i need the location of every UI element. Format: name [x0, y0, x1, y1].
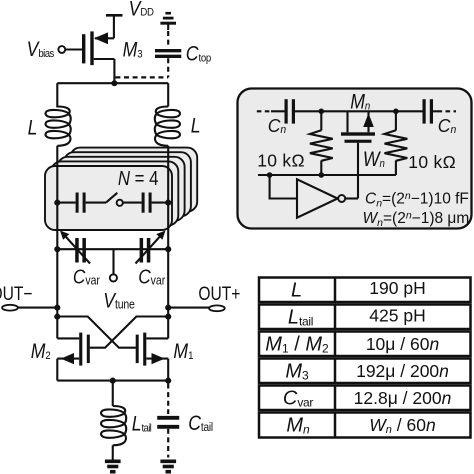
- svg-text:L: L: [191, 114, 201, 138]
- inductor L (left): [46, 107, 71, 146]
- table row 6: Mn = Wn/60n: [286, 415, 435, 437]
- OUT- terminal: [2, 305, 57, 311]
- svg-text:Ltail: Ltail: [132, 412, 152, 436]
- wire left rail to inductor: [56, 83, 58, 107]
- VDD supply rail bar: [106, 15, 123, 38]
- wire top center: [321, 110, 396, 112]
- resistor 10k right: [385, 111, 408, 175]
- node bank left: [54, 200, 60, 206]
- bank capacitor right: [142, 193, 169, 213]
- svg-text:M2: M2: [31, 339, 51, 363]
- node tail right: [165, 378, 171, 384]
- table row 1: L = 190 pH: [291, 278, 426, 302]
- svg-text:Cvar: Cvar: [73, 266, 100, 289]
- wire common source line: [57, 380, 168, 382]
- svg-text:10 kΩ: 10 kΩ: [408, 152, 456, 172]
- wire dashed continuation left: [257, 110, 271, 112]
- svg-text:OUT+: OUT+: [198, 282, 240, 304]
- label L right: [191, 114, 201, 138]
- capacitor Cn right: [396, 99, 438, 123]
- inverter: [297, 179, 358, 217]
- label OUT+: [198, 282, 240, 304]
- label OUT-: [0, 282, 33, 304]
- ac-ground symbol above Ctop (flipped ground): [160, 13, 176, 30]
- wire right rail to inductor: [167, 83, 169, 106]
- svg-text:10 kΩ: 10 kΩ: [257, 151, 305, 171]
- label M1: [173, 339, 193, 363]
- table row 4: M3 = 192u/200n: [285, 361, 449, 383]
- transistor M2 (NMOS left): [57, 317, 90, 381]
- wire cross-coupling left-to-right gate: [57, 317, 136, 348]
- wire left rail through bank: [56, 146, 58, 317]
- node out right upper: [165, 305, 171, 311]
- node left resistor bottom: [319, 172, 325, 178]
- node out left lower: [54, 314, 60, 320]
- transistor M1 (NMOS right): [136, 317, 169, 381]
- transistor M3 (PMOS): [82, 31, 114, 83]
- label Vtune: [103, 289, 135, 313]
- svg-text:Wn / 60n: Wn / 60n: [369, 415, 435, 436]
- label M3: [123, 38, 143, 62]
- wire dashed continuation right: [438, 110, 457, 112]
- table row 2: Ltail = 425 pH: [288, 306, 426, 329]
- capacitor Ctop (dashed connections): [155, 31, 181, 77]
- label Wn: [363, 148, 385, 172]
- svg-text:OUT−: OUT−: [0, 282, 33, 304]
- label L left: [28, 116, 38, 140]
- dashed wire from drain node to Ctop: [115, 76, 168, 78]
- label Mn: [350, 90, 370, 114]
- label Ltail: [132, 412, 152, 436]
- wire resistor bottom rail: [258, 174, 396, 176]
- label Ctail: [188, 411, 213, 435]
- svg-text:Vbias: Vbias: [27, 38, 54, 62]
- table row 5: Cvar = 12.8u/200n: [283, 388, 451, 410]
- varactor row wire: [57, 248, 168, 250]
- inset rounded box (unit cell detail): [238, 89, 472, 229]
- svg-text:Ctop: Ctop: [186, 42, 212, 66]
- capacitor Ctail (dashed branch): [157, 384, 179, 458]
- label Cn right: [438, 115, 457, 136]
- svg-text:L: L: [28, 116, 38, 140]
- svg-text:M3: M3: [123, 38, 143, 62]
- wire inverter input: [270, 175, 297, 199]
- node right of Mn: [393, 109, 399, 115]
- svg-text:Vtune: Vtune: [103, 289, 135, 313]
- label Cvar right: [138, 266, 165, 289]
- node bank right: [165, 200, 171, 206]
- svg-text:N = 4: N = 4: [118, 167, 159, 190]
- switched-capacitor bank stacked boxes (N=4): [45, 148, 197, 230]
- svg-text:Cvar: Cvar: [138, 266, 165, 289]
- wire cross-coupling right-to-left gate: [90, 317, 169, 348]
- node out left upper: [54, 305, 60, 311]
- resistor 10k left: [310, 111, 333, 175]
- node varactor right: [165, 246, 171, 252]
- table column divider: [334, 278, 337, 438]
- label Cvar left: [73, 266, 100, 289]
- node tail center: [110, 378, 116, 384]
- svg-text:L: L: [291, 280, 302, 302]
- label VDD: [129, 0, 155, 21]
- node inverter tap: [267, 172, 273, 178]
- transistor Mn (horizontal): [341, 111, 375, 198]
- Vtune terminal: [110, 249, 117, 281]
- node left of Mn: [319, 109, 325, 115]
- node out right lower: [165, 314, 171, 320]
- wire top rail: [57, 82, 168, 84]
- table row 3: M1/M2 = 10u/60n: [265, 334, 439, 356]
- svg-text:Ctail: Ctail: [188, 411, 213, 435]
- svg-text:192μ / 200n: 192μ / 200n: [356, 361, 449, 381]
- node drain of M3: [111, 80, 117, 86]
- capacitor Cn left: [271, 99, 321, 123]
- ground under Ltail: [105, 461, 121, 471]
- svg-text:425 pH: 425 pH: [369, 306, 425, 326]
- ground under Ctail: [160, 461, 176, 471]
- inductor L (right): [155, 107, 180, 146]
- varactor Cvar left: [60, 231, 90, 264]
- svg-text:M1: M1: [173, 339, 193, 363]
- table of device values: [259, 278, 471, 438]
- svg-text:12.8μ / 200n: 12.8μ / 200n: [354, 388, 452, 408]
- label Ctop: [186, 42, 212, 66]
- svg-text:M1 / M2: M1 / M2: [265, 334, 329, 356]
- label M2: [31, 339, 51, 363]
- svg-text:VDD: VDD: [129, 0, 155, 21]
- inductor Ltail: [101, 381, 126, 460]
- OUT+ terminal: [168, 305, 225, 311]
- node varactor left: [54, 246, 60, 252]
- bank capacitor left: [57, 193, 106, 213]
- label Cn left: [268, 115, 287, 136]
- wire right rail through bank: [167, 146, 169, 317]
- varactor Cvar right: [136, 231, 166, 264]
- switch in bank: [106, 193, 142, 206]
- svg-text:190 pH: 190 pH: [369, 278, 425, 298]
- Vbias input terminal: [58, 46, 82, 53]
- svg-text:10μ / 60n: 10μ / 60n: [366, 334, 439, 354]
- label N = 4: [118, 167, 159, 190]
- label Vbias: [27, 38, 54, 62]
